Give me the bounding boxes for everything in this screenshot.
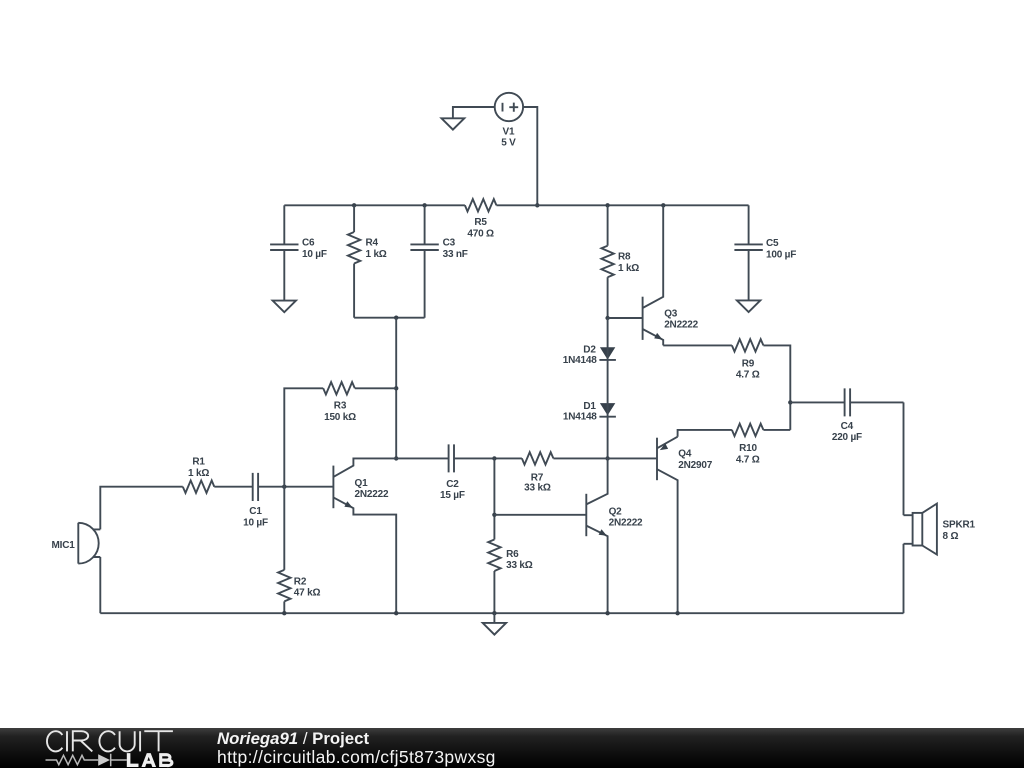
logo CIRCUIT text [47,731,173,751]
node R8/Q3 base junction [605,316,609,320]
svg-text:Q4: Q4 [678,449,692,460]
node Q3 collector top [661,203,665,207]
wire V1 negative to ground [453,107,495,118]
svg-text:4.7 Ω: 4.7 Ω [736,369,760,380]
logo diode [98,754,110,766]
svg-text:V1: V1 [502,126,514,137]
svg-text:470 Ω: 470 Ω [467,228,494,239]
svg-text:33 kΩ: 33 kΩ [506,560,533,571]
svg-text:R9: R9 [742,358,755,369]
svg-text:D1: D1 [583,401,596,412]
wire collector node to C2 [396,457,448,459]
svg-text:10 µF: 10 µF [302,249,327,260]
svg-text:47 kΩ: 47 kΩ [294,588,321,599]
svg-text:2N2222: 2N2222 [664,319,698,330]
svg-text:33 nF: 33 nF [443,249,468,260]
resistor R2 [278,487,320,614]
wire Q4 base [608,457,657,459]
wire C4 down to speaker [903,402,905,515]
resistor R10 [732,424,790,466]
node R3 right junction [394,386,398,390]
wire top rail right segment [496,204,748,206]
capacitor C1 [243,473,268,529]
wire top rail left segment [284,204,465,206]
capacitor C6 [270,205,327,300]
node R2 bottom rail [282,611,286,615]
svg-text:100 µF: 100 µF [766,250,796,261]
footer url [217,747,496,768]
resistor R6 [488,458,533,613]
svg-text:R10: R10 [739,443,757,454]
wire mic top to R1 [100,487,183,530]
resistor R1 [183,457,215,493]
ground below C5 [737,300,760,312]
wire R4/C3 bottom [354,317,425,319]
svg-text:D2: D2 [583,344,596,355]
svg-text:C4: C4 [841,421,854,432]
wire Q3 base [608,317,643,319]
wire bottom rail [100,612,903,614]
ground below bottom rail [483,613,506,634]
svg-text:C1: C1 [249,506,262,517]
wire R1 to C1 [214,486,252,488]
resistor R7 [522,452,608,493]
svg-text:Q1: Q1 [355,478,369,489]
svg-text:5 V: 5 V [501,138,516,149]
svg-text:15 µF: 15 µF [440,490,465,501]
node Q4 collector rail [675,611,679,615]
wire C2 to R7 [454,457,522,459]
svg-text:8 Ω: 8 Ω [943,531,959,542]
svg-text:1 kΩ: 1 kΩ [366,249,387,260]
footer project title [217,729,369,749]
svg-text:MIC1: MIC1 [52,540,76,551]
node R7/D1/Q2/Q4 junction [605,456,609,460]
capacitor C2 [440,444,465,501]
transistor Q2 [586,458,643,613]
node Q2 emitter rail [605,611,609,615]
svg-text:C3: C3 [443,238,456,249]
resistor R8 [601,205,639,318]
wire D2 top [607,318,609,348]
wire speaker bottom to rail [903,544,905,613]
diode D1 [563,401,616,459]
node R4/C3 bottom junction [394,316,398,320]
svg-text:220 µF: 220 µF [832,432,862,443]
svg-text:Q2: Q2 [609,507,623,518]
resistor R4 [348,205,387,317]
node R8 top [605,203,609,207]
svg-text:C5: C5 [766,238,779,249]
wire R9 from Q3 emitter [663,344,732,346]
node input junction [282,485,286,489]
logo LAB text [127,753,156,767]
transistor Q4 [657,437,713,614]
svg-text:150 kΩ: 150 kΩ [324,412,356,423]
svg-text:2N2907: 2N2907 [678,460,712,471]
svg-text:R5: R5 [474,217,487,228]
svg-text:R6: R6 [506,549,519,560]
svg-text:10 µF: 10 µF [243,517,268,528]
diode D2 [563,344,616,403]
capacitor C5 [734,205,796,300]
svg-text:1N4148: 1N4148 [563,355,597,366]
node C2/R7/R6 junction [492,456,496,460]
speaker SPKR1 [904,504,976,555]
wire R9 right down to R10 [763,345,790,430]
svg-text:R1: R1 [192,457,205,468]
node R6 bottom rail [492,611,496,615]
wire R3 left vertical [284,388,323,486]
svg-text:1 kΩ: 1 kΩ [188,468,209,479]
node Q1 collector junction [394,456,398,460]
transistor Q1 [333,458,396,613]
wire V1 positive down to rail [523,107,537,205]
ground below C6 [273,301,296,313]
node Q1 emitter rail [394,611,398,615]
wire R10 to Q4 emitter [678,430,732,437]
wire collector node vertical [395,318,397,459]
capacitor C3 [410,205,467,317]
microphone MIC1 [52,523,101,564]
node R9/R10/C4 junction [788,400,792,404]
resistor R5 [465,199,497,239]
resistor R9 [732,339,764,380]
svg-text:1 kΩ: 1 kΩ [618,263,639,274]
capacitor C4 [790,388,903,443]
voltage source V1 [495,93,523,149]
logo resistor squiggle [46,755,99,764]
svg-text:SPKR1: SPKR1 [943,520,976,531]
svg-text:2N2222: 2N2222 [355,489,389,500]
svg-text:R3: R3 [334,401,347,412]
svg-text:2N2222: 2N2222 [609,518,643,529]
svg-text:4.7 Ω: 4.7 Ω [736,454,760,465]
svg-text:33 kΩ: 33 kΩ [524,483,551,494]
transistor Q3 [643,205,699,345]
node R4 top [352,203,356,207]
svg-text:C6: C6 [302,238,315,249]
svg-text:Q3: Q3 [664,309,678,320]
svg-text:R8: R8 [618,252,631,263]
node V1-rail junction [535,203,539,207]
svg-text:1N4148: 1N4148 [563,411,597,422]
svg-text:C2: C2 [446,479,459,490]
ground at V1 [442,118,465,129]
wire mic bottom to rail [99,557,101,613]
node Q2 base junction [492,513,496,517]
svg-text:R4: R4 [366,238,379,249]
node C3 top [422,203,426,207]
svg-text:R2: R2 [294,577,307,588]
wire C1 to Q1 base [259,486,334,488]
resistor R3 [323,382,396,423]
wire Q2 base [494,514,586,516]
